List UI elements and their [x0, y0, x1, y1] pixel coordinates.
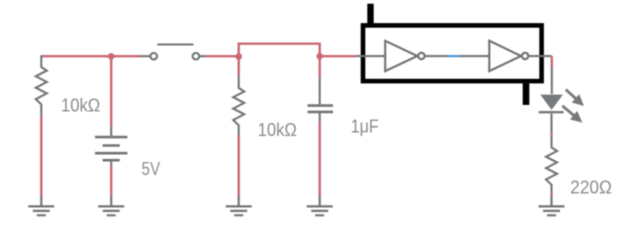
wire switch to node A	[206, 55, 237, 57]
junction dot node B	[316, 53, 323, 60]
svg-text:5V: 5V	[142, 158, 161, 179]
resistor R3 220Ω	[546, 136, 557, 194]
wire battery top	[110, 56, 112, 126]
wire node B to IC input	[320, 55, 356, 57]
wire R1 to ground	[40, 116, 42, 196]
wire battery to ground	[110, 165, 112, 196]
battery BAT1 5V	[95, 126, 127, 165]
inverter gate U1A	[385, 41, 424, 71]
ground GND3	[226, 196, 252, 215]
wire C1 to ground	[319, 122, 321, 197]
wire node A down	[237, 57, 239, 76]
wire LED to R3 red	[550, 133, 552, 137]
wire U1B out to box edge	[529, 55, 552, 57]
wire node B down	[319, 56, 321, 77]
svg-text:10kΩ: 10kΩ	[258, 119, 297, 140]
pin U1 GND bottom	[523, 83, 530, 105]
wire pin input gray	[356, 55, 386, 57]
wire net1 top-left horizontal	[41, 55, 140, 57]
wire output red corner	[551, 56, 553, 67]
wire to U1B	[460, 55, 489, 57]
ground GND2	[98, 196, 124, 215]
svg-text:220Ω: 220Ω	[570, 177, 612, 198]
switch S1	[140, 45, 206, 60]
IC U1 inverter box	[363, 25, 542, 81]
ground GND5	[539, 196, 565, 215]
LED light emission arrows	[562, 90, 584, 123]
capacitor C1	[308, 77, 334, 121]
svg-text:1μF: 1μF	[351, 116, 379, 137]
wire down to LED	[551, 68, 553, 95]
pin U1 VCC top	[367, 4, 373, 25]
junction dot battery node	[108, 53, 115, 60]
ground GND4	[307, 196, 333, 215]
wire U1A out	[425, 55, 447, 57]
wire selected segment blue	[447, 55, 460, 57]
inverter gate U1B	[489, 41, 528, 71]
svg-text:10kΩ: 10kΩ	[61, 94, 100, 115]
wire R2 to ground	[237, 135, 239, 196]
wire bridge node A to node B	[239, 44, 320, 57]
LED D1	[539, 95, 564, 113]
resistor R1	[36, 55, 47, 116]
resistor R2	[233, 75, 244, 135]
ground GND1	[28, 196, 54, 215]
wire LED pin gray	[550, 114, 552, 133]
junction dot node A	[235, 53, 242, 60]
wire R3 to ground	[550, 194, 552, 197]
